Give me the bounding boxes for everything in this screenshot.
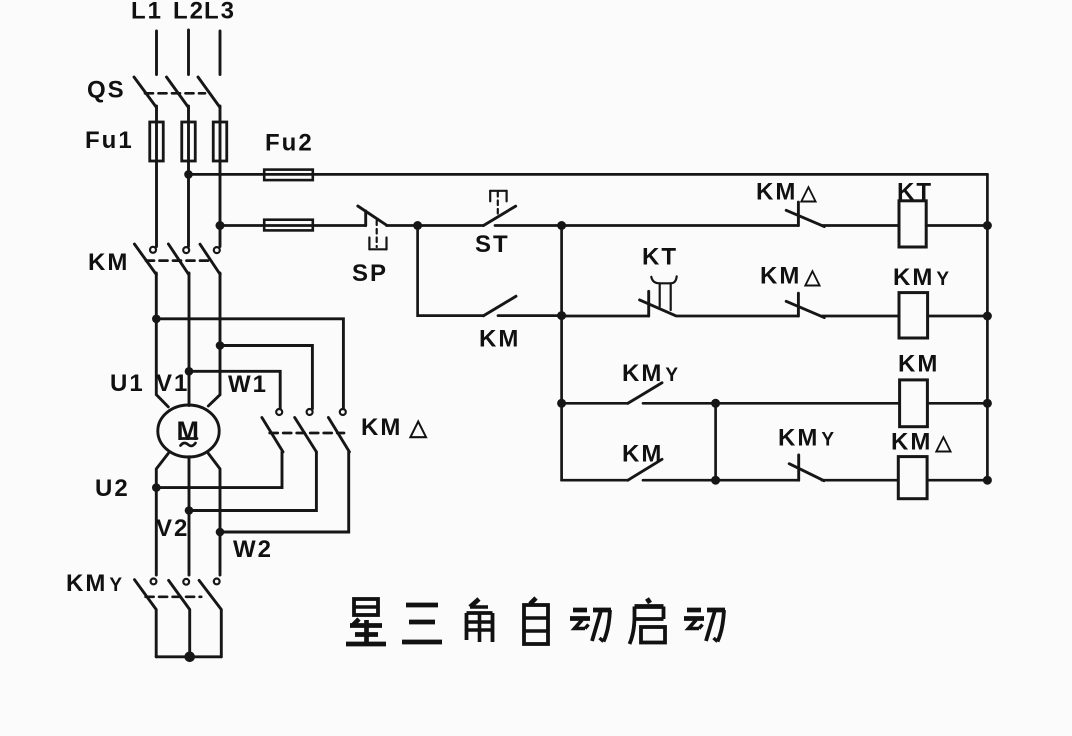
wire to KM-delta coil <box>822 479 898 482</box>
wire KMY contact to junction <box>643 402 716 405</box>
junction row2/left rail <box>557 311 566 320</box>
char 5 dong <box>570 610 611 642</box>
svg-text:Fu1: Fu1 <box>85 127 134 154</box>
wire W2 to KM-delta contact 3 bottom <box>220 452 349 532</box>
wire junction to KMY NC <box>716 479 799 482</box>
char 4 zi <box>524 598 548 644</box>
svg-text:Fu2: Fu2 <box>265 130 314 157</box>
junction U1 <box>152 315 161 324</box>
pushbutton SP (stop, NC) <box>352 206 388 287</box>
coil KT (time relay) <box>897 179 933 248</box>
svg-text:KM△: KM△ <box>756 179 818 206</box>
svg-text:KMY: KMY <box>778 425 836 452</box>
svg-text:SP: SP <box>352 260 388 287</box>
junction W1 <box>216 341 225 350</box>
contactor KM main contacts <box>88 244 220 276</box>
wire U2 to KM-delta contact 1 bottom <box>156 452 282 488</box>
junction L3 to control row1 <box>216 221 225 230</box>
junction W2 <box>216 528 225 537</box>
right rail vertical <box>986 174 989 480</box>
junction row3 mid <box>711 399 720 408</box>
wire row3 left <box>562 402 628 405</box>
svg-text:KM△: KM△ <box>760 263 822 290</box>
wire motor V2 lead <box>188 457 191 575</box>
junction row1/right rail <box>983 221 992 230</box>
svg-text:W2: W2 <box>233 536 273 563</box>
wire KT coil to right rail <box>926 224 987 227</box>
char 6 qi <box>630 599 666 645</box>
junction row4 mid <box>711 476 720 485</box>
junction U2 <box>152 483 161 492</box>
wire KMY coil to right rail <box>928 315 988 318</box>
wire KM holding branch <box>418 226 484 316</box>
control bus top wire <box>189 173 988 176</box>
svg-text:L1: L1 <box>131 0 163 25</box>
wire phase B (KM to motor V1) <box>188 273 191 406</box>
wire row4 left <box>562 479 628 482</box>
svg-text:M: M <box>177 416 200 446</box>
wire row1 left <box>220 224 366 227</box>
svg-text:V2: V2 <box>156 515 189 542</box>
svg-text:L2: L2 <box>173 0 205 25</box>
wire L3 drop <box>219 31 222 75</box>
wire to KMY coil <box>822 315 899 318</box>
svg-text:L3: L3 <box>204 0 236 25</box>
fuse Fu2 upper <box>264 170 313 181</box>
svg-text:KM: KM <box>88 249 129 276</box>
wire phase A vertical (QS to KM) <box>155 106 158 247</box>
wire KM coil to right rail <box>927 402 987 405</box>
svg-text:U2: U2 <box>95 475 130 502</box>
junction row1/left rail <box>557 221 566 230</box>
wire U1 to KM-delta contact 3 <box>156 319 343 409</box>
disconnect switch QS <box>87 77 220 108</box>
svg-text:KMY: KMY <box>893 264 951 291</box>
wire KT contact to KM-delta NC row2 <box>677 315 799 318</box>
junction L2 to control bus <box>184 170 193 179</box>
star point bus <box>156 655 221 658</box>
wire KM contact to junction <box>643 479 716 482</box>
fuse Fu2 lower <box>264 220 313 231</box>
svg-text:KM: KM <box>622 441 663 468</box>
coil KM-delta (delta contactor) <box>891 429 953 499</box>
wire phase C vertical (QS to KM) <box>219 106 222 247</box>
char 7 dong <box>684 610 725 642</box>
char 3 jiao <box>467 599 493 642</box>
wire L1 drop <box>155 31 158 75</box>
auxiliary contact KM-delta NC (row2) <box>760 263 824 318</box>
svg-text:KT: KT <box>897 179 933 206</box>
auxiliary contact KMY NC (row4) <box>778 425 836 481</box>
svg-text:KM△: KM△ <box>891 429 953 456</box>
fuse Fu1 <box>85 122 227 161</box>
junction V2 <box>185 506 194 515</box>
wire KM-delta coil to right rail <box>927 479 987 482</box>
svg-text:KMY: KMY <box>66 570 124 597</box>
junction row1 branch <box>413 221 422 230</box>
wire phase B vertical (QS to KM) <box>187 106 190 247</box>
svg-text:W1: W1 <box>228 371 268 398</box>
wire motor U2 lead <box>156 453 168 575</box>
svg-text:QS: QS <box>87 77 126 104</box>
wire phase A (KM to motor U1) <box>156 273 168 407</box>
timed contact KT (NO, delay close) <box>640 244 678 317</box>
junction star point <box>184 652 195 663</box>
junction row3/left rail <box>557 399 566 408</box>
auxiliary contact KMY (NO, row3) <box>622 360 680 403</box>
wire row2 left <box>562 315 649 318</box>
title: Chinese caption (star-delta automatic start) drawn as strokes <box>346 598 725 644</box>
junction row2/right rail <box>983 312 992 321</box>
svg-text:ST: ST <box>475 231 510 258</box>
wire row1 to KM-delta NC <box>562 224 799 227</box>
svg-text:KT: KT <box>642 244 678 271</box>
wire to KM coil <box>716 402 900 405</box>
char 2 san <box>402 605 442 642</box>
wire to KT coil <box>822 224 899 227</box>
wire V2 to KM-delta contact 2 bottom <box>189 452 316 511</box>
wire motor W2 lead <box>208 453 220 575</box>
svg-text:KM: KM <box>479 326 520 353</box>
contactor KMY main contacts <box>66 570 221 657</box>
pushbutton ST (start, NO) <box>475 191 516 258</box>
svg-text:KM△: KM△ <box>361 414 429 441</box>
wire ST to junction <box>495 224 562 227</box>
char 1 xing <box>346 599 386 644</box>
junction row3/right rail <box>983 399 992 408</box>
svg-text:V1: V1 <box>156 370 189 397</box>
wire W1 to KM-delta contact 2 <box>220 346 312 409</box>
wire KM contact to left rail <box>498 314 562 317</box>
contactor KM-delta main contacts <box>262 409 429 452</box>
vertical tie row3-row4 <box>714 403 717 480</box>
svg-text:U1: U1 <box>110 370 145 397</box>
junction row4/right rail <box>983 476 992 485</box>
coil KMY (star contactor) <box>893 264 951 338</box>
coil KM (line contactor) <box>898 351 939 427</box>
wire L2 drop <box>187 30 190 75</box>
svg-text:KM: KM <box>898 351 939 378</box>
junction V1 <box>185 367 194 376</box>
wire SP to ST <box>387 224 484 227</box>
auxiliary contact KM (NO, row4) <box>622 441 663 481</box>
svg-text:KMY: KMY <box>622 360 680 387</box>
auxiliary contact KM (hold-in, NO) <box>479 296 520 352</box>
motor M <box>158 405 219 457</box>
wire V1 to KM-delta contact 1 <box>189 371 280 408</box>
auxiliary contact KM-delta NC (row1) <box>756 179 824 227</box>
wire phase C (KM to motor W1) <box>208 273 220 406</box>
left rail vertical <box>560 226 563 481</box>
